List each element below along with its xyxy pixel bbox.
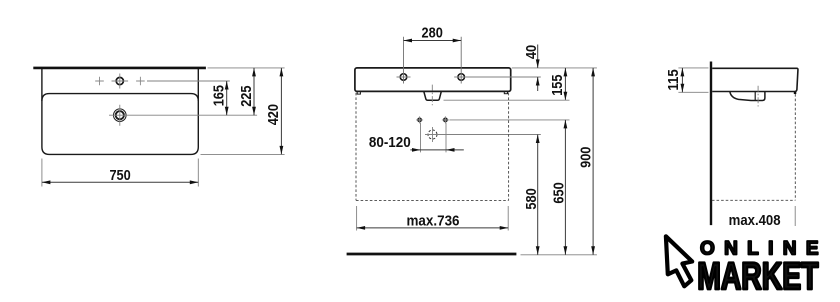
extension line tap hole level to 165 dim — [147, 80, 230, 82]
plan tap hole circle — [116, 77, 123, 84]
extension line stub bottom to 155 dim — [444, 99, 570, 101]
wall bolt left — [418, 118, 421, 121]
dim 420 line — [280, 68, 282, 154]
plan drain inner circle — [116, 111, 124, 119]
svg-text:80-120: 80-120 — [369, 134, 411, 151]
front tap hole right — [458, 74, 465, 81]
svg-text:650: 650 — [551, 182, 568, 203]
cabinet zone dashed outline — [356, 93, 509, 201]
extension line front top edge to 900 dim — [512, 67, 597, 69]
svg-text:750: 750 — [109, 167, 130, 184]
dim 115 line — [681, 68, 683, 92]
extension line tap level to 40 dim — [466, 76, 541, 78]
extension line plan top edge to 420 dim — [208, 67, 285, 69]
front left foot — [357, 91, 360, 94]
dim 115 extension lines — [678, 68, 708, 92]
plan outer profile sides + front edge rounded — [42, 69, 198, 154]
front tap hole left — [400, 74, 407, 81]
dim 580 line — [537, 135, 539, 255]
front drain centerline — [431, 85, 433, 106]
extension line plan bottom edge to 420 dim — [201, 153, 285, 155]
dim 80-120 line with outside arrows — [410, 149, 464, 151]
trap outlet circle — [428, 130, 437, 139]
dim max736 extension lines — [357, 206, 509, 231]
plan back edge thick line — [33, 67, 206, 70]
svg-text:max.736: max.736 — [407, 212, 460, 229]
logo cursor arrow — [666, 236, 692, 286]
side drain centerline — [757, 86, 759, 107]
plan alt tap hole plus left — [95, 77, 104, 86]
dim 280 line — [404, 40, 462, 42]
svg-text:165: 165 — [211, 85, 228, 106]
svg-text:MARKET: MARKET — [697, 256, 818, 298]
plan drain crosshair + extension to 225 dim — [109, 105, 257, 126]
trap crosshair — [425, 127, 440, 142]
front basin body — [355, 68, 511, 92]
plan tap hole crosshair — [112, 74, 129, 89]
dim max736 line — [357, 227, 509, 229]
svg-text:155: 155 — [549, 75, 566, 96]
plan basin inner rim top edge — [42, 94, 198, 101]
dim 225 line — [253, 68, 255, 115]
dim 900 line — [592, 68, 594, 255]
dim 155 line — [564, 68, 566, 100]
wall bolt right — [444, 118, 447, 121]
floor line thick — [347, 253, 517, 256]
svg-text:40: 40 — [523, 45, 540, 59]
side bowl and drain box — [730, 92, 765, 101]
plan drain outer circle — [114, 109, 127, 122]
dim 165 line — [226, 81, 228, 115]
side cabinet zone dashed outline — [712, 94, 795, 200]
dim 40 upper tail and arrow — [537, 45, 539, 68]
floor extension line to 900 dim — [521, 254, 597, 256]
svg-text:580: 580 — [523, 188, 540, 209]
svg-text:225: 225 — [238, 86, 255, 107]
extension line trap level to 580 dim — [439, 134, 541, 136]
svg-text:900: 900 — [578, 147, 595, 168]
svg-text:115: 115 — [665, 69, 682, 90]
front drain stub — [424, 91, 442, 100]
svg-text:420: 420 — [265, 104, 282, 125]
dim 80-120 extension lines — [421, 123, 447, 153]
side extension line right below — [794, 206, 796, 226]
extension line bolt level to 650 dim — [449, 119, 569, 121]
side drain box divider — [754, 92, 756, 100]
side foot tick — [794, 92, 797, 94]
dim 750 line — [42, 181, 198, 183]
svg-text:max.408: max.408 — [729, 212, 781, 229]
wall line — [710, 62, 712, 226]
side profile top/right/bottom — [712, 68, 798, 91]
svg-text:280: 280 — [422, 24, 443, 41]
front tap hole crosshairs — [397, 76, 469, 78]
dim 280 extension lines through tap holes — [404, 37, 462, 84]
front right foot — [504, 91, 507, 93]
plan alt tap hole plus right — [136, 77, 145, 86]
dim 750 extension lines — [42, 159, 198, 187]
dim 650 line — [564, 120, 566, 255]
